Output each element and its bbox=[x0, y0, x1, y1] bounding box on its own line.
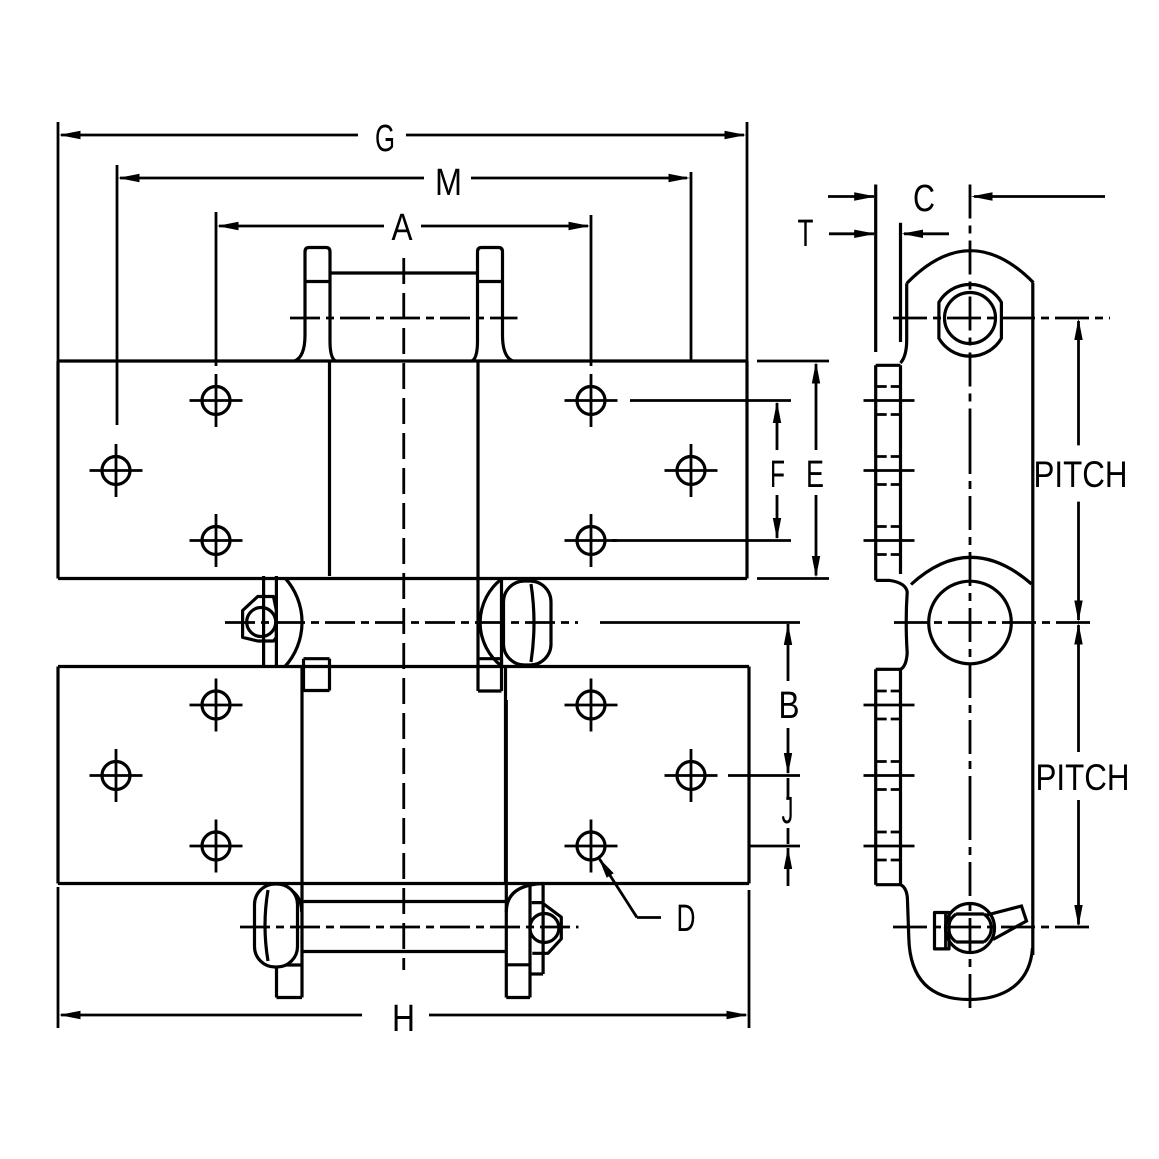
dimension B extension lines bbox=[600, 621, 800, 624]
svg-text:D: D bbox=[677, 898, 696, 940]
attachment edge strip upper lug bbox=[874, 185, 877, 353]
link plate middle boss left edge bbox=[890, 580, 907, 669]
top pin centerlines bbox=[893, 317, 1110, 320]
bottom pin body bbox=[302, 900, 506, 903]
bottom attachment plate outline bbox=[58, 665, 749, 668]
dimension A extension lines bbox=[215, 212, 218, 366]
bottom pin nut profile bbox=[935, 913, 950, 949]
bottom pin washer circle bbox=[946, 904, 995, 953]
svg-text:PITCH: PITCH bbox=[1036, 757, 1130, 798]
cotter pin bbox=[985, 906, 1027, 940]
svg-text:J: J bbox=[782, 790, 794, 832]
strip hole row mark y=400.5 bbox=[864, 399, 915, 402]
dimension F bbox=[776, 403, 779, 450]
bottom pin centerline bbox=[240, 926, 579, 929]
top plate bolt hole (591,400.5) bbox=[577, 387, 605, 415]
svg-text:H: H bbox=[392, 998, 415, 1040]
bottom right washer bbox=[541, 884, 544, 975]
bottom right hex nut bbox=[532, 903, 562, 954]
right outer sidebar line bbox=[504, 667, 507, 884]
dimension E extension lines bbox=[757, 360, 829, 363]
top pin hex head bbox=[939, 284, 1002, 356]
chain side centerline bbox=[969, 440, 972, 806]
strip hole row mark y=540.5 bbox=[864, 539, 915, 542]
top plate bolt hole (216,400.5) bbox=[202, 387, 230, 415]
roller bbox=[929, 581, 1012, 664]
dimension G bbox=[61, 134, 358, 137]
bottom plate bolt hole (216,846) bbox=[202, 832, 230, 860]
link plate right edge bbox=[1031, 283, 1034, 955]
strip segment pitch1-2 bbox=[874, 365, 877, 580]
dimension B bbox=[787, 624, 790, 681]
svg-text:PITCH: PITCH bbox=[1034, 454, 1128, 495]
dimension H bbox=[61, 1014, 362, 1017]
middle joint right pin head capsule bbox=[504, 581, 552, 665]
middle joint left sidebar boss arc bbox=[285, 578, 302, 667]
bottom plate bolt hole (591,705) bbox=[577, 691, 605, 719]
right inner sidebar line bbox=[476, 361, 479, 691]
top attachment plate outline bbox=[58, 359, 747, 362]
link plate middle boss arc bbox=[911, 557, 1032, 584]
svg-text:T: T bbox=[798, 213, 814, 255]
svg-text:F: F bbox=[770, 454, 785, 496]
link plate bottom end bbox=[901, 885, 1033, 1000]
dimension G extension lines bbox=[57, 122, 60, 361]
bottom right corner arc bbox=[506, 884, 543, 913]
dimension C bbox=[828, 195, 874, 198]
dimension J extension line bbox=[750, 845, 800, 848]
bottom plate bolt hole (591,846) bbox=[577, 832, 605, 860]
leader D bbox=[599, 858, 614, 878]
strip segment pitch2-3 bbox=[874, 669, 877, 884]
top plate bolt hole (116,470.5) bbox=[102, 457, 130, 485]
dimension F extension lines bbox=[630, 399, 791, 402]
middle joint left hex nut bbox=[243, 597, 277, 642]
left inner sidebar line bbox=[328, 361, 331, 576]
bottom plate bolt hole (216,705) bbox=[202, 691, 230, 719]
dimension A bbox=[219, 225, 384, 228]
svg-text:G: G bbox=[375, 118, 395, 160]
sidebar cross edge between lugs bbox=[330, 271, 478, 274]
bottom plate bolt hole (116,775.5) bbox=[102, 762, 130, 790]
left outer sidebar line bbox=[300, 667, 303, 884]
pitch dimension upper bbox=[1077, 321, 1080, 445]
lug pitch centerline bbox=[290, 317, 518, 320]
bottom left sidebar tab bbox=[275, 884, 278, 998]
svg-text:B: B bbox=[779, 685, 800, 727]
dimension M bbox=[120, 177, 424, 180]
left bent lug (top) bbox=[305, 248, 330, 342]
dimension M extension lines bbox=[116, 165, 119, 425]
middle joint right sidebar boss arc bbox=[480, 579, 501, 666]
middle joint left pin end bbox=[247, 608, 276, 637]
dimension T bbox=[829, 232, 874, 235]
strip hole row mark y=775.5 bbox=[864, 774, 915, 777]
dimension E bbox=[815, 364, 818, 450]
strip hole row mark y=846 bbox=[864, 845, 915, 848]
strip hole row mark y=470.5 bbox=[864, 469, 915, 472]
roller centerlines bbox=[894, 621, 1095, 624]
middle joint right sidebar tab bbox=[478, 657, 502, 660]
svg-text:M: M bbox=[435, 162, 462, 204]
bottom right pin end bbox=[530, 914, 559, 943]
dimension H extension lines bbox=[57, 887, 60, 1028]
top plate bolt hole (591,540.5) bbox=[577, 527, 605, 555]
right bent lug (top) bbox=[478, 248, 503, 342]
top plate bolt hole (691,470.5) bbox=[677, 457, 705, 485]
svg-text:A: A bbox=[392, 207, 414, 249]
chain centerline (vertical) bbox=[402, 258, 405, 970]
bottom right sidebar tab bbox=[505, 700, 508, 998]
bottom pin inner bbox=[956, 914, 984, 942]
strip hole row mark y=705 bbox=[864, 704, 915, 707]
svg-text:C: C bbox=[913, 178, 935, 220]
bottom pin centerlines bbox=[893, 926, 1095, 929]
top pin circle bbox=[945, 293, 996, 344]
bottom plate bolt hole (691,775.5) bbox=[677, 762, 705, 790]
top plate bolt hole (216,540.5) bbox=[202, 527, 230, 555]
bottom left corner arc bbox=[265, 884, 302, 913]
middle joint left washer bbox=[262, 576, 265, 667]
link plate top arc bbox=[907, 251, 1034, 284]
link plate left edge top bbox=[901, 283, 907, 363]
middle joint left sidebar tab bbox=[302, 659, 305, 691]
pitch dimension lower bbox=[1077, 625, 1080, 752]
bottom left pin head capsule bbox=[255, 884, 298, 967]
middle pin centerline bbox=[225, 621, 578, 624]
svg-text:E: E bbox=[806, 454, 824, 496]
dimension J bbox=[787, 778, 790, 797]
